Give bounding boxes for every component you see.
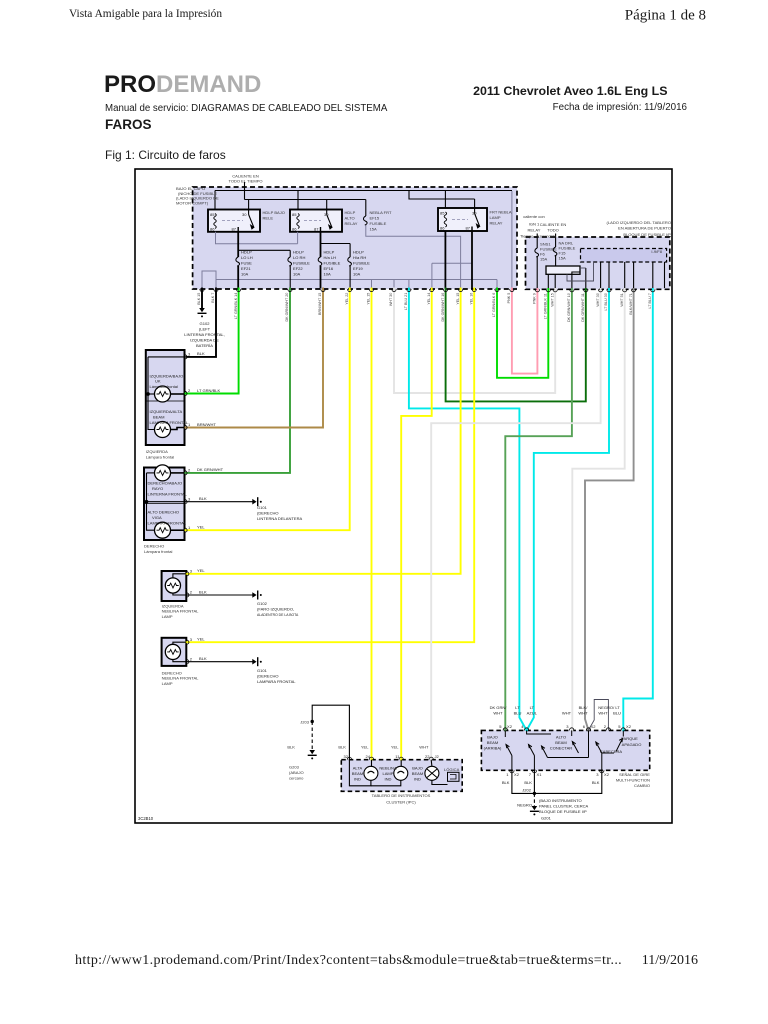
svg-text:NEGRO: NEGRO bbox=[517, 803, 532, 808]
svg-text:30: 30 bbox=[242, 212, 247, 217]
svg-text:ALADENTRO DE LA BOTA: ALADENTRO DE LA BOTA bbox=[257, 613, 299, 617]
svg-text:TODO: TODO bbox=[547, 228, 559, 233]
svg-text:FUSIBLE: FUSIBLE bbox=[370, 221, 387, 226]
svg-text:UK: UK bbox=[155, 379, 161, 384]
svg-text:BLK: BLK bbox=[199, 589, 207, 594]
svg-text:LINTERNA FRONTAL,: LINTERNA FRONTAL, bbox=[184, 332, 225, 337]
svg-text:PRODEMAND: PRODEMAND bbox=[104, 71, 261, 98]
svg-text:YEL 15: YEL 15 bbox=[367, 293, 371, 305]
svg-text:RELAY: RELAY bbox=[528, 228, 541, 233]
svg-text:YEL: YEL bbox=[391, 745, 399, 750]
svg-text:BLU: BLU bbox=[613, 711, 621, 716]
svg-text:(DERECHO: (DERECHO bbox=[257, 674, 279, 679]
svg-text:WHT: WHT bbox=[562, 711, 572, 716]
svg-text:WHT 30: WHT 30 bbox=[389, 293, 393, 306]
svg-text:YEL 15: YEL 15 bbox=[456, 293, 460, 305]
svg-text:ALTO: ALTO bbox=[556, 735, 566, 740]
svg-text:X2: X2 bbox=[604, 772, 610, 777]
svg-text:ALTA: ALTA bbox=[353, 766, 363, 771]
svg-text:Manual de servicio: DIAGRAMAS: Manual de servicio: DIAGRAMAS DE CABLEAD… bbox=[105, 103, 388, 114]
svg-text:EN ABERTURA DE PUERTO: EN ABERTURA DE PUERTO bbox=[618, 226, 671, 231]
svg-text:10A: 10A bbox=[324, 272, 332, 277]
svg-text:YEL: YEL bbox=[197, 525, 205, 530]
svg-text:LT: LT bbox=[530, 705, 535, 710]
svg-text:HDLP BAJO: HDLP BAJO bbox=[263, 210, 285, 215]
svg-text:WHT: WHT bbox=[578, 711, 588, 716]
svg-text:CABECERA: CABECERA bbox=[600, 749, 623, 754]
svg-text:BLK/: BLK/ bbox=[579, 705, 589, 710]
svg-text:(LEFT: (LEFT bbox=[199, 327, 211, 332]
svg-text:ALTO DERECHO: ALTO DERECHO bbox=[148, 510, 180, 515]
svg-text:TODO EL TIEMPO: TODO EL TIEMPO bbox=[228, 179, 262, 184]
svg-text:IZQUIERDA: IZQUIERDA bbox=[146, 449, 168, 454]
svg-text:WHT: WHT bbox=[419, 745, 429, 750]
svg-text:CLUSTER (IPC): CLUSTER (IPC) bbox=[386, 800, 416, 805]
svg-text:YEL: YEL bbox=[197, 568, 205, 573]
svg-text:86: 86 bbox=[440, 226, 445, 231]
svg-text:EF21: EF21 bbox=[241, 266, 251, 271]
svg-text:LÓGICA: LÓGICA bbox=[444, 767, 460, 772]
svg-text:LAMP: LAMP bbox=[162, 614, 173, 619]
svg-text:PANEL CLUSTER, CERCA: PANEL CLUSTER, CERCA bbox=[539, 804, 589, 809]
svg-text:NEBLINA FRONTAL: NEBLINA FRONTAL bbox=[162, 609, 200, 614]
svg-text:LAMPARA FRONTAL: LAMPARA FRONTAL bbox=[257, 679, 296, 684]
svg-text:BLOQUE DE FUSIBLE I/P: BLOQUE DE FUSIBLE I/P bbox=[539, 809, 587, 814]
svg-text:30: 30 bbox=[324, 212, 329, 217]
svg-text:TABLERO DE INSTRUMENTOS: TABLERO DE INSTRUMENTOS bbox=[372, 793, 431, 798]
svg-text:cercano: cercano bbox=[289, 776, 304, 781]
svg-text:Tiempo,: Tiempo, bbox=[520, 234, 534, 239]
svg-text:BLK: BLK bbox=[592, 780, 600, 785]
svg-text:HDLP: HDLP bbox=[353, 250, 364, 255]
svg-text:IND: IND bbox=[354, 777, 361, 782]
svg-text:3C2B10: 3C2B10 bbox=[138, 816, 154, 821]
svg-text:BLK: BLK bbox=[199, 656, 207, 661]
svg-text:BEAM: BEAM bbox=[555, 740, 567, 745]
svg-text:HDLP: HDLP bbox=[293, 250, 304, 255]
svg-text:DK GRN/WHT 11: DK GRN/WHT 11 bbox=[581, 293, 585, 322]
svg-text:(BAJO INSTRUMENTO: (BAJO INSTRUMENTO bbox=[539, 798, 582, 803]
svg-text:RELE: RELE bbox=[263, 216, 274, 221]
svg-text:LINTERNA DELANTERA: LINTERNA DELANTERA bbox=[257, 516, 303, 521]
svg-text:EF15: EF15 bbox=[370, 216, 380, 221]
svg-text:X2: X2 bbox=[626, 724, 632, 729]
svg-text:WHT 51: WHT 51 bbox=[620, 293, 624, 306]
svg-text:PNK 5: PNK 5 bbox=[507, 293, 511, 304]
svg-text:RELAY: RELAY bbox=[345, 221, 358, 226]
svg-text:BRN/WHT 15: BRN/WHT 15 bbox=[318, 293, 322, 315]
svg-text:YEL: YEL bbox=[361, 745, 369, 750]
svg-text:WHT: WHT bbox=[598, 711, 608, 716]
svg-text:BEAM: BEAM bbox=[412, 771, 424, 776]
svg-text:BEAM: BEAM bbox=[487, 740, 499, 745]
svg-text:WHT 15: WHT 15 bbox=[550, 293, 554, 306]
svg-text:DK GRN/WHT 20: DK GRN/WHT 20 bbox=[285, 293, 289, 322]
svg-text:Lámpara frontal: Lámpara frontal bbox=[146, 455, 174, 460]
svg-text:PARQUE: PARQUE bbox=[621, 736, 638, 741]
svg-text:85: 85 bbox=[440, 211, 445, 216]
svg-text:FUSIBLE: FUSIBLE bbox=[353, 261, 370, 266]
svg-text:LO LH: LO LH bbox=[241, 255, 253, 260]
svg-text:24: 24 bbox=[365, 754, 370, 759]
svg-text:87: 87 bbox=[231, 227, 236, 232]
svg-text:LAMPARA FRONTAL: LAMPARA FRONTAL bbox=[150, 420, 189, 425]
svg-text:15A: 15A bbox=[559, 256, 567, 261]
svg-text:LT BLU 21: LT BLU 21 bbox=[404, 293, 408, 310]
svg-text:G201: G201 bbox=[541, 816, 552, 821]
svg-text:BAJO: BAJO bbox=[412, 766, 423, 771]
svg-text:X1: X1 bbox=[537, 772, 543, 777]
svg-text:YEL 14: YEL 14 bbox=[427, 293, 431, 305]
svg-text:RAYO: RAYO bbox=[152, 486, 163, 491]
svg-text:86: 86 bbox=[210, 227, 215, 232]
svg-text:DK GRN/WHT: DK GRN/WHT bbox=[197, 467, 224, 472]
svg-text:(ABAJO: (ABAJO bbox=[289, 770, 304, 775]
svg-text:LAMP: LAMP bbox=[382, 771, 393, 776]
svg-text:Fig 1: Circuito de faros: Fig 1: Circuito de faros bbox=[105, 148, 226, 162]
svg-text:VIGA: VIGA bbox=[152, 515, 162, 520]
svg-text:(ARRIBA): (ARRIBA) bbox=[484, 746, 502, 751]
svg-text:APAGADO: APAGADO bbox=[622, 742, 642, 747]
svg-text:I-9/F8: I-9/F8 bbox=[651, 249, 662, 254]
svg-text:H/a LH: H/a LH bbox=[324, 255, 337, 260]
svg-text:LAMP: LAMP bbox=[162, 681, 173, 686]
svg-text:IND: IND bbox=[414, 777, 421, 782]
svg-text:DK GRN/: DK GRN/ bbox=[490, 705, 508, 710]
svg-text:G102: G102 bbox=[257, 601, 268, 606]
svg-text:BLK: BLK bbox=[197, 351, 205, 356]
svg-text:BLK 7: BLK 7 bbox=[211, 293, 215, 303]
svg-text:YEL 16: YEL 16 bbox=[469, 293, 473, 305]
svg-text:SEÑAL DE GIRE: SEÑAL DE GIRE bbox=[619, 772, 650, 777]
svg-text:BLK: BLK bbox=[502, 780, 510, 785]
svg-text:FRT NEBLA: FRT NEBLA bbox=[490, 210, 512, 215]
svg-text:J2: J2 bbox=[435, 754, 440, 759]
svg-text:LT BLU 30: LT BLU 30 bbox=[604, 293, 608, 310]
svg-text:http://www1.prodemand.com/Prin: http://www1.prodemand.com/Print/Index?co… bbox=[75, 953, 622, 968]
svg-text:J202: J202 bbox=[522, 788, 532, 793]
svg-text:NEGRO/ LT: NEGRO/ LT bbox=[598, 705, 620, 710]
svg-text:BLK: BLK bbox=[199, 496, 207, 501]
svg-text:H/a RH: H/a RH bbox=[353, 255, 366, 260]
svg-text:IND: IND bbox=[385, 777, 392, 782]
svg-text:BLK/WHT 71: BLK/WHT 71 bbox=[629, 293, 633, 314]
svg-text:X2: X2 bbox=[507, 724, 513, 729]
svg-text:LAMPARA FRONTAL: LAMPARA FRONTAL bbox=[148, 521, 187, 526]
svg-text:AZUL: AZUL bbox=[527, 711, 538, 716]
svg-text:LT GRN/BLK 11: LT GRN/BLK 11 bbox=[544, 293, 548, 319]
svg-text:X2: X2 bbox=[591, 724, 597, 729]
svg-text:J203: J203 bbox=[300, 720, 310, 725]
svg-text:DK GRN/WHT 16: DK GRN/WHT 16 bbox=[441, 293, 445, 322]
svg-text:LT BLU 7: LT BLU 7 bbox=[648, 293, 652, 308]
svg-text:Lámpara frontal: Lámpara frontal bbox=[150, 384, 178, 389]
svg-text:DERECHO/ABAJO: DERECHO/ABAJO bbox=[148, 481, 183, 486]
svg-text:HDLP: HDLP bbox=[324, 250, 335, 255]
svg-text:EF19: EF19 bbox=[353, 266, 363, 271]
svg-text:NEBLINA: NEBLINA bbox=[379, 766, 397, 771]
svg-text:LO RH: LO RH bbox=[293, 255, 305, 260]
svg-text:EF16: EF16 bbox=[324, 266, 334, 271]
svg-text:BEAM: BEAM bbox=[153, 415, 165, 420]
svg-text:BLK: BLK bbox=[524, 780, 532, 785]
svg-text:85: 85 bbox=[292, 212, 297, 217]
svg-text:87: 87 bbox=[314, 227, 319, 232]
svg-text:CAMBIO: CAMBIO bbox=[634, 783, 650, 788]
svg-text:10A: 10A bbox=[241, 272, 249, 277]
svg-text:Encendido: Encendido bbox=[537, 234, 557, 239]
svg-text:FUSIBLE: FUSIBLE bbox=[293, 261, 310, 266]
svg-text:NEBLINA FRONTAL: NEBLINA FRONTAL bbox=[162, 676, 200, 681]
svg-text:85: 85 bbox=[210, 212, 215, 217]
svg-text:BLOQUE DE FUSIBLE I/P: BLOQUE DE FUSIBLE I/P bbox=[623, 232, 671, 237]
svg-text:BEAM: BEAM bbox=[352, 771, 364, 776]
svg-text:LT GRN/BLK 6: LT GRN/BLK 6 bbox=[492, 293, 496, 317]
svg-text:2011 Chevrolet Aveo 1.6L Eng L: 2011 Chevrolet Aveo 1.6L Eng LS bbox=[473, 84, 667, 98]
svg-text:15A: 15A bbox=[540, 257, 548, 262]
svg-text:RELAY: RELAY bbox=[490, 221, 503, 226]
svg-text:NEBLA FRT: NEBLA FRT bbox=[370, 210, 392, 215]
svg-text:BLU: BLU bbox=[514, 711, 522, 716]
svg-text:BLK: BLK bbox=[287, 745, 295, 750]
svg-text:EF22: EF22 bbox=[293, 266, 303, 271]
svg-text:IZQUIERDA/ALTA: IZQUIERDA/ALTA bbox=[150, 409, 183, 414]
svg-text:HDLP: HDLP bbox=[241, 250, 252, 255]
svg-text:FAROS: FAROS bbox=[105, 117, 152, 132]
svg-text:CALIENTE EN: CALIENTE EN bbox=[540, 222, 567, 227]
svg-text:LT: LT bbox=[515, 705, 520, 710]
svg-text:LAMP: LAMP bbox=[490, 215, 501, 220]
svg-text:86: 86 bbox=[292, 227, 297, 232]
svg-text:G101: G101 bbox=[257, 505, 268, 510]
svg-text:G102: G102 bbox=[200, 321, 211, 326]
svg-text:BAJO: BAJO bbox=[487, 735, 498, 740]
svg-text:WHT: WHT bbox=[493, 711, 503, 716]
svg-text:caliente con: caliente con bbox=[523, 214, 545, 219]
svg-text:30: 30 bbox=[472, 211, 477, 216]
svg-text:(FARO IZQUIERDO,: (FARO IZQUIERDO, bbox=[257, 607, 294, 612]
svg-text:(LADO IZQUIERDO DEL TABLERO: (LADO IZQUIERDO DEL TABLERO bbox=[607, 220, 671, 225]
svg-text:BLK: BLK bbox=[338, 745, 346, 750]
svg-text:IZQUIERDA DE: IZQUIERDA DE bbox=[190, 338, 219, 343]
svg-text:22: 22 bbox=[425, 754, 430, 759]
svg-text:Vista Amigable para la Impresi: Vista Amigable para la Impresión bbox=[69, 8, 222, 20]
svg-text:BATERÍA: BATERÍA bbox=[196, 343, 213, 348]
svg-text:BLK 15: BLK 15 bbox=[197, 293, 201, 305]
svg-text:FUSE: FUSE bbox=[241, 261, 252, 266]
svg-text:MULTI-FUNCTION: MULTI-FUNCTION bbox=[616, 778, 650, 783]
svg-text:BRN/WHT: BRN/WHT bbox=[197, 422, 216, 427]
svg-text:G101: G101 bbox=[257, 668, 268, 673]
svg-text:YEL 22: YEL 22 bbox=[345, 293, 349, 305]
svg-text:DK GRN/WHT 10: DK GRN/WHT 10 bbox=[567, 293, 571, 322]
svg-text:(DERECHO: (DERECHO bbox=[257, 511, 279, 516]
svg-text:G203: G203 bbox=[289, 765, 300, 770]
svg-text:DERECHO: DERECHO bbox=[144, 544, 164, 549]
svg-text:10A: 10A bbox=[353, 272, 361, 277]
svg-text:CONECTAR: CONECTAR bbox=[550, 746, 572, 751]
svg-text:LT GRN/BLK 14: LT GRN/BLK 14 bbox=[234, 293, 238, 319]
svg-text:FUSIBLE: FUSIBLE bbox=[324, 261, 341, 266]
svg-text:IGN 1: IGN 1 bbox=[529, 222, 540, 227]
svg-text:ALTO: ALTO bbox=[345, 216, 355, 221]
svg-text:LINTERNA FRONTAL: LINTERNA FRONTAL bbox=[148, 492, 188, 497]
svg-text:15A: 15A bbox=[370, 227, 378, 232]
svg-text:YEL: YEL bbox=[197, 637, 205, 642]
svg-text:Fecha de impresión: 11/9/2016: Fecha de impresión: 11/9/2016 bbox=[553, 102, 688, 113]
svg-text:Página 1 de 8: Página 1 de 8 bbox=[625, 8, 706, 24]
svg-text:PNK 9: PNK 9 bbox=[533, 293, 537, 304]
svg-text:X2: X2 bbox=[514, 772, 520, 777]
svg-text:LT GRN/BLK: LT GRN/BLK bbox=[197, 388, 221, 393]
svg-text:10A: 10A bbox=[293, 272, 301, 277]
svg-text:HDLP: HDLP bbox=[345, 210, 356, 215]
svg-text:Lámpara frontal: Lámpara frontal bbox=[144, 549, 172, 554]
svg-text:32: 32 bbox=[343, 754, 348, 759]
svg-text:11/9/2016: 11/9/2016 bbox=[642, 953, 698, 968]
svg-text:MOTOR COMPT): MOTOR COMPT) bbox=[176, 200, 209, 205]
svg-text:87: 87 bbox=[465, 226, 470, 231]
svg-text:WHT 30: WHT 30 bbox=[596, 293, 600, 306]
